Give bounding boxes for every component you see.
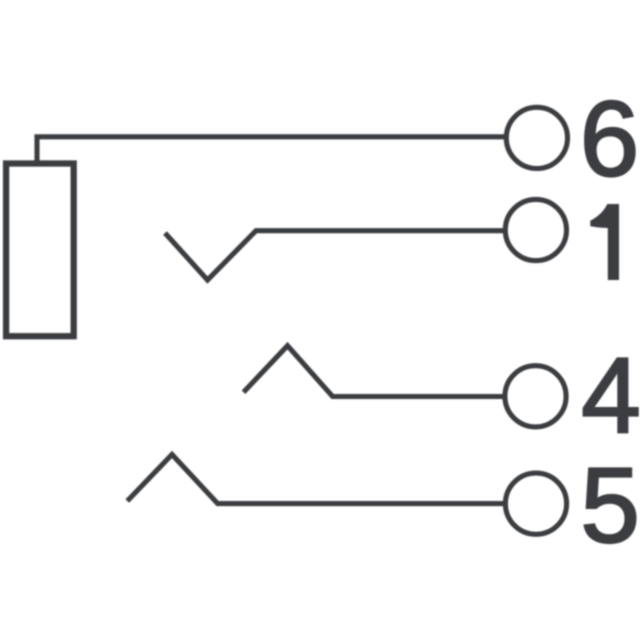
svg-text:6: 6 — [580, 79, 640, 199]
svg-text:5: 5 — [580, 445, 640, 565]
svg-text:4: 4 — [581, 335, 640, 455]
